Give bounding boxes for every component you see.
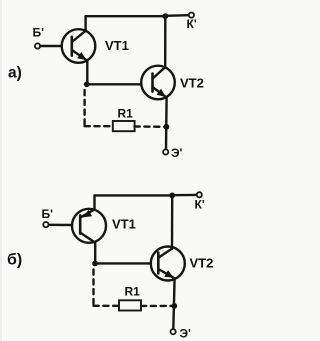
wire to VT2 base (b) [95, 262, 151, 264]
svg-text:VT2: VT2 [180, 76, 204, 91]
svg-text:VT1: VT1 [105, 38, 129, 53]
node collector junction (b) [169, 193, 175, 199]
node VT1 / VT2 base (b) [92, 261, 98, 267]
wire VT2 collector up (a) [164, 16, 167, 67]
svg-text:К': К' [195, 198, 205, 212]
terminal Э' (b) [171, 329, 176, 334]
svg-text:R1: R1 [125, 285, 141, 299]
wire to VT2 base (a) [87, 83, 142, 85]
dashed wire R1 to emitter node (b) [141, 305, 172, 307]
wire VT2 emitter down (a) [165, 98, 168, 150]
transistor VT1 (a) NPN [62, 29, 96, 63]
transistor VT2 (a) NPN [141, 66, 175, 100]
node VT1 emitter / VT2 base (a) [84, 81, 90, 87]
wire VT1 top up (b) [93, 195, 95, 209]
node R1 / emitter junction (a) [164, 124, 170, 130]
svg-text:VT1: VT1 [112, 217, 136, 232]
svg-text:Э': Э' [180, 327, 192, 341]
wire base input (a) [40, 45, 62, 47]
dashed wire R1 to emitter node (a) [135, 125, 164, 128]
node collector junction (a) [162, 13, 168, 19]
wire top rail (a) [86, 15, 166, 17]
wire VT2 collector up (b) [171, 195, 174, 248]
svg-text:а): а) [8, 65, 22, 82]
dashed wire down from base node (b) [92, 270, 94, 306]
transistor VT2 (b) NPN [151, 247, 185, 281]
svg-text:R1: R1 [118, 107, 134, 121]
wire VT2 emitter down (b) [173, 278, 174, 329]
dashed wire to R1 (b) [94, 305, 120, 307]
wire VT1 bottom down (b) [94, 243, 96, 264]
node R1 / emitter junction (b) [171, 303, 177, 309]
wire to K' terminal (b) [172, 194, 197, 197]
svg-text:Б': Б' [33, 26, 45, 40]
dashed wire to R1 (a) [85, 125, 113, 127]
wire VT1 collector up (a) [84, 16, 86, 31]
terminal Б' (b) [43, 222, 48, 227]
dashed wire down from base node (a) [83, 90, 85, 126]
wire base input (b) [49, 224, 72, 227]
terminal Б' (a) [35, 43, 40, 48]
transistor VT1 (b) PNP [72, 209, 106, 243]
svg-text:VT2: VT2 [190, 256, 214, 271]
resistor R1 (b) [119, 300, 141, 310]
terminal К' (a) [189, 13, 194, 18]
wire top rail (b) [95, 194, 173, 196]
terminal К' (b) [197, 192, 202, 197]
terminal Э' (a) [163, 149, 168, 154]
svg-text:Б': Б' [42, 207, 54, 221]
wire VT1 emitter down (a) [86, 61, 88, 85]
svg-text:К': К' [187, 17, 197, 31]
svg-text:б): б) [7, 252, 22, 269]
svg-text:Э': Э' [171, 146, 183, 160]
wire to K' terminal (a) [165, 14, 189, 17]
resistor R1 (a) [113, 121, 135, 131]
